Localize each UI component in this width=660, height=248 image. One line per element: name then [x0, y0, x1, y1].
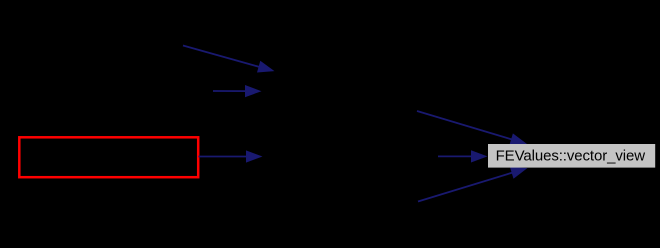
edge arrow A4 — [417, 111, 527, 145]
node box (middle C, black on black) — [262, 182, 418, 221]
svg-text:FEValues::vector_view: FEValues::vector_view — [496, 148, 646, 165]
node box (middle A, black on black) — [261, 72, 417, 111]
edge arrow A1 — [183, 46, 275, 73]
node box (middle B, black on black) — [262, 137, 438, 176]
node box (caller, highlighted red) — [19, 137, 198, 177]
edge arrow A5 — [438, 150, 488, 162]
edge arrow A3 — [199, 150, 263, 162]
edge arrow A6 — [418, 167, 528, 202]
edge arrow A2 — [213, 85, 262, 97]
node box FEValues::vector_view (gray) — [488, 144, 655, 168]
node box (caller, top-left, black on black) — [34, 26, 183, 65]
node box (caller, mid-left, black on black) — [4, 71, 213, 110]
